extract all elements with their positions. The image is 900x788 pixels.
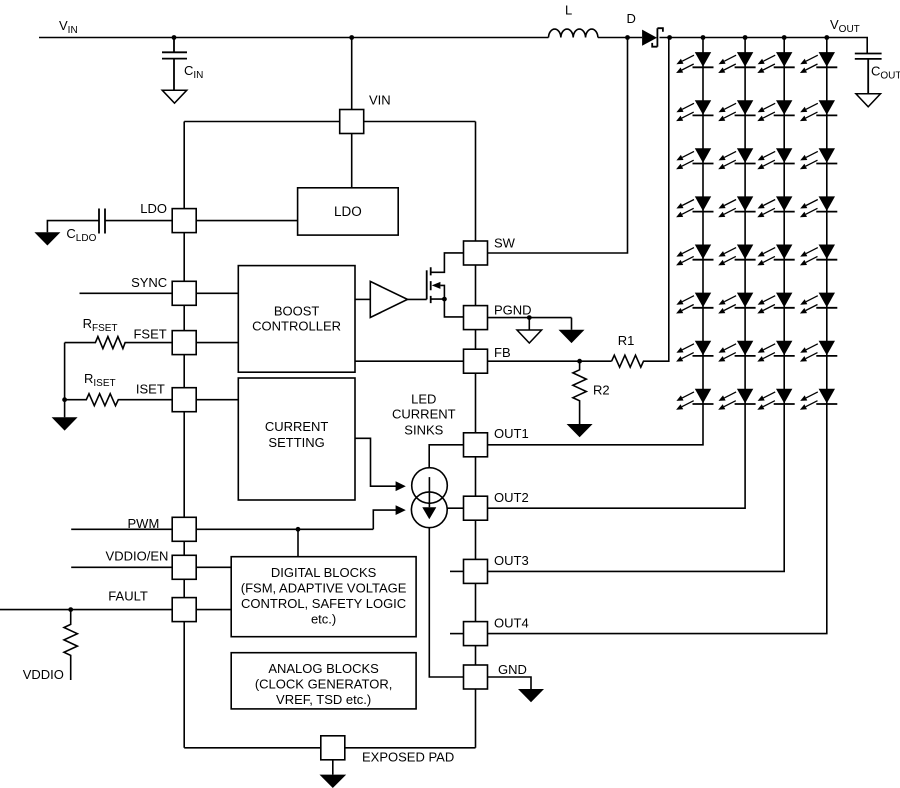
- svg-text:VIN: VIN: [59, 18, 78, 36]
- svg-text:PGND: PGND: [494, 303, 532, 318]
- LED string 3 row 2: [757, 100, 794, 121]
- LED string 4 row 1: [800, 52, 837, 73]
- wire VDDIO/EN input: [71, 566, 172, 568]
- block CURRENT SETTING: [238, 378, 355, 500]
- svg-text:R1: R1: [618, 333, 635, 348]
- node FAULT pull-up junction: [68, 607, 73, 612]
- svg-text:FSET: FSET: [133, 327, 166, 342]
- LED string 1 row 8: [676, 389, 713, 410]
- node FB divider junction: [577, 359, 582, 364]
- svg-text:RFSET: RFSET: [83, 316, 118, 334]
- svg-text:SW: SW: [494, 236, 516, 251]
- wire PWM input: [71, 528, 172, 530]
- LED string 2 row 6: [718, 293, 755, 314]
- ground RFSET/RISET: [52, 417, 78, 430]
- ground GND: [518, 689, 544, 702]
- LED string 4 row 3: [800, 148, 837, 169]
- wire LDO pin to LDO block: [196, 220, 297, 222]
- wire VIN pin to chip left edge: [184, 121, 340, 123]
- pin OUT2: [464, 496, 488, 520]
- wire current sink to GND pin: [429, 528, 463, 677]
- LED string 3 row 7: [757, 341, 794, 362]
- svg-text:ANALOG BLOCKS: ANALOG BLOCKS: [268, 661, 379, 676]
- pin FB: [464, 349, 488, 373]
- svg-text:SETTING: SETTING: [268, 435, 324, 450]
- svg-text:COUT: COUT: [871, 64, 900, 82]
- current sink arrow: [428, 477, 430, 507]
- LED string 1 row 6: [676, 293, 713, 314]
- svg-text:RISET: RISET: [84, 371, 116, 389]
- svg-text:CONTROLLER: CONTROLLER: [252, 319, 341, 334]
- node LED string 1 top junction: [701, 35, 706, 40]
- block DIGITAL BLOCKS: [231, 557, 416, 637]
- wire PWM node to DIGITAL BLOCKS: [297, 529, 299, 556]
- svg-text:LDO: LDO: [140, 201, 167, 216]
- LED string 3 row 6: [757, 293, 794, 314]
- resistor RISET: [65, 394, 173, 406]
- pin OUT3: [464, 559, 488, 583]
- wire FAULT input: [0, 609, 172, 611]
- LED string 4 row 5: [800, 245, 837, 266]
- pin GND: [464, 665, 488, 689]
- pin LDO: [172, 209, 196, 233]
- resistor R1: [612, 38, 669, 368]
- svg-text:D: D: [627, 11, 636, 26]
- svg-text:LDO: LDO: [334, 204, 362, 219]
- resistor RFSET: [65, 337, 173, 349]
- wire chip right edge pin column: [475, 122, 477, 748]
- wire FAULT pin to DIGITAL BLOCKS: [196, 609, 231, 611]
- svg-text:VDDIO/EN: VDDIO/EN: [106, 548, 169, 563]
- LED string 3 row 5: [757, 245, 794, 266]
- svg-text:FAULT: FAULT: [108, 589, 148, 604]
- ground PGND filled: [559, 330, 585, 343]
- pin SW: [464, 241, 488, 265]
- LED string 2 row 1: [718, 52, 755, 73]
- diode D: [642, 30, 657, 46]
- wire FB pin to R1/R2 node: [488, 360, 612, 362]
- node PGND ground junction: [527, 315, 532, 320]
- LED string 1 row 3: [676, 148, 713, 169]
- block BOOST CONTROLLER: [238, 266, 355, 373]
- LED string 3 row 1: [757, 52, 794, 73]
- svg-text:OUT2: OUT2: [494, 490, 529, 505]
- capacitor COUT: [855, 54, 882, 94]
- node VIN rail / VIN pin junction: [349, 35, 354, 40]
- node SW tap on rail: [625, 35, 630, 40]
- pin VDDIO/EN: [172, 555, 196, 579]
- ground R2: [567, 424, 593, 437]
- svg-text:BOOST: BOOST: [274, 304, 320, 319]
- pin VIN: [340, 110, 364, 134]
- LED string 1 row 4: [676, 196, 713, 217]
- svg-text:VIN: VIN: [369, 93, 391, 108]
- LED string 4 row 7: [800, 341, 837, 362]
- label LED CURRENT SINKS: [392, 391, 456, 437]
- LED string 4 row 2: [800, 100, 837, 121]
- op-amp gate driver buffer: [370, 281, 407, 317]
- LED string 4 row 6: [800, 293, 837, 314]
- svg-text:EXPOSED PAD: EXPOSED PAD: [362, 750, 454, 765]
- block ANALOG BLOCKS: [231, 653, 416, 709]
- LED string 2 row 3: [718, 148, 755, 169]
- svg-text:OUT1: OUT1: [494, 426, 529, 441]
- ground EXPOSED PAD: [332, 760, 334, 775]
- pin FAULT: [172, 598, 196, 622]
- wire SW pin to inductor/diode node: [488, 38, 628, 254]
- wire SYNC input: [80, 292, 173, 294]
- node RFSET/RISET ground junction: [62, 397, 67, 402]
- wire OUT3 stub: [450, 570, 464, 572]
- wire GND pin to ground: [488, 677, 532, 689]
- svg-text:R2: R2: [593, 383, 610, 398]
- wire PGND pin to grounds: [488, 318, 572, 330]
- wire chip bottom edge: [184, 747, 475, 749]
- arrow into lower sink: [396, 505, 406, 515]
- resistor R2: [573, 361, 586, 424]
- svg-text:ISET: ISET: [136, 381, 165, 396]
- LED string 3 row 3: [757, 148, 794, 169]
- wire OUT1 pin to current sink: [429, 445, 463, 468]
- LED string 2 row 8: [718, 389, 755, 410]
- node PWM / digital junction: [296, 527, 301, 532]
- transistor Q1 power NMOS: [427, 253, 464, 317]
- LED string 1 row 1: [676, 52, 713, 73]
- pin EXPOSED PAD: [321, 736, 345, 760]
- wire current sink to OUT2 pin: [447, 507, 463, 509]
- wire driver to MOSFET gate: [408, 298, 427, 300]
- pin SYNC: [172, 281, 196, 305]
- svg-text:SINKS: SINKS: [404, 422, 443, 437]
- capacitor CLDO: [99, 209, 105, 234]
- ground COUT: [856, 94, 881, 107]
- wire PWM pin to sink branch: [196, 528, 373, 530]
- svg-text:PWM: PWM: [128, 516, 160, 531]
- LED string 4 row 8: [800, 389, 837, 410]
- inductor L: [549, 29, 598, 37]
- pin FSET: [172, 331, 196, 355]
- resistor VDDIO pull-up: [64, 610, 77, 680]
- wire BOOST to FB pin: [355, 360, 464, 362]
- capacitor CIN: [162, 38, 187, 91]
- ground CLDO: [34, 232, 60, 245]
- node LED string 4 top junction: [824, 35, 829, 40]
- wire VDDIO/EN pin to DIGITAL BLOCKS: [196, 566, 231, 568]
- wire VIN node to VIN pin: [351, 38, 353, 110]
- ground PGND open: [517, 330, 542, 343]
- arrow into upper sink: [396, 481, 406, 491]
- svg-text:FB: FB: [494, 345, 511, 360]
- svg-text:LED: LED: [411, 391, 436, 406]
- LED string 3 row 4: [757, 196, 794, 217]
- pin OUT1: [464, 433, 488, 457]
- wire VIN pin to chip right edge: [364, 121, 476, 123]
- pin ISET: [172, 388, 196, 412]
- svg-text:CURRENT: CURRENT: [392, 406, 456, 421]
- wire LDO pin to CLDO: [105, 220, 172, 222]
- svg-text:etc.): etc.): [311, 611, 336, 626]
- node LED string 3 top junction: [782, 35, 787, 40]
- wire OUT4 stub: [450, 633, 464, 635]
- svg-text:VOUT: VOUT: [830, 17, 860, 35]
- pin OUT4: [464, 622, 488, 646]
- LED string 2 row 7: [718, 341, 755, 362]
- wire FSET pin to BOOST CONTROLLER: [196, 342, 238, 344]
- svg-text:CIN: CIN: [184, 63, 203, 81]
- wire LED string 3: [488, 38, 785, 572]
- svg-text:CURRENT: CURRENT: [265, 419, 329, 434]
- LED string 1 row 5: [676, 245, 713, 266]
- svg-text:CLDO: CLDO: [66, 226, 96, 244]
- wire SYNC pin to BOOST CONTROLLER: [196, 292, 238, 294]
- node VIN rail / CIN junction: [172, 35, 177, 40]
- LED string 1 row 2: [676, 100, 713, 121]
- wire chip left edge: [183, 122, 185, 748]
- current source symbol upper: [412, 468, 448, 504]
- pin PGND: [464, 306, 488, 330]
- svg-text:DIGITAL BLOCKS: DIGITAL BLOCKS: [271, 565, 377, 580]
- wire LED string 1: [488, 38, 704, 445]
- wire RFSET-RISET common leg: [64, 343, 66, 418]
- svg-text:GND: GND: [498, 662, 527, 677]
- svg-text:(FSM, ADAPTIVE VOLTAGE: (FSM, ADAPTIVE VOLTAGE: [241, 581, 407, 596]
- svg-text:SYNC: SYNC: [131, 275, 167, 290]
- svg-text:OUT3: OUT3: [494, 553, 529, 568]
- LED string 4 row 4: [800, 196, 837, 217]
- wire PWM branch to sink control: [373, 510, 396, 529]
- LED string 1 row 7: [676, 341, 713, 362]
- svg-text:VDDIO: VDDIO: [23, 667, 64, 682]
- svg-text:VREF, TSD etc.): VREF, TSD etc.): [276, 692, 371, 707]
- LED string 2 row 4: [718, 196, 755, 217]
- wire ISET pin to CURRENT SETTING: [196, 399, 238, 401]
- LED string 2 row 5: [718, 245, 755, 266]
- svg-text:(CLOCK GENERATOR,: (CLOCK GENERATOR,: [255, 676, 392, 691]
- LED string 3 row 8: [757, 389, 794, 410]
- ground CIN: [162, 90, 187, 103]
- wire LED string 4: [488, 38, 827, 634]
- current source symbol lower: [411, 492, 447, 528]
- svg-text:L: L: [565, 3, 572, 18]
- wire LED string 2: [488, 38, 746, 509]
- block LDO: [298, 188, 399, 235]
- wire CLDO to ground: [47, 221, 99, 233]
- node LED string 2 top junction: [743, 35, 748, 40]
- wire VIN rail top: [39, 38, 867, 54]
- wire BOOST to gate driver: [355, 298, 370, 300]
- wire VIN pin to LDO block: [351, 134, 353, 188]
- wire CURRENT SETTING to sink control: [355, 438, 397, 486]
- svg-text:OUT4: OUT4: [494, 616, 529, 631]
- svg-text:CONTROL, SAFETY LOGIC: CONTROL, SAFETY LOGIC: [241, 596, 406, 611]
- node diode cathode / VOUT: [667, 35, 672, 40]
- LED string 2 row 2: [718, 100, 755, 121]
- pin PWM: [172, 517, 196, 541]
